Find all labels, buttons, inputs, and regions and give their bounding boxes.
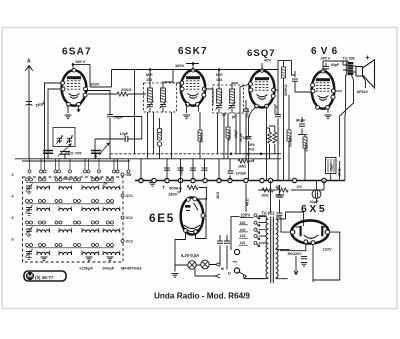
node avc2: [247, 153, 250, 156]
wire trim arrow: [160, 101, 167, 109]
resistor avc load: [273, 132, 277, 143]
capacitor right1: [277, 195, 283, 197]
wire right caps: [279, 185, 281, 218]
svg-text:+150pF: +150pF: [79, 266, 93, 271]
node bus junction: [322, 178, 326, 182]
svg-text:TA 952: TA 952: [262, 211, 276, 216]
svg-text:D: D: [228, 271, 231, 276]
svg-text:125: 125: [240, 234, 246, 238]
wire arrow down: [294, 256, 298, 275]
trimmer capacitor osc2: [66, 135, 73, 143]
wire underline 140: [239, 231, 248, 233]
svg-text:6SK7: 6SK7: [178, 46, 208, 57]
wire tap 110: [259, 242, 267, 244]
wire stub: [98, 159, 100, 170]
svg-text:6SQ7: 6SQ7: [247, 48, 276, 59]
wire 6SA7 right: [85, 91, 111, 159]
wire 6SK7 cath: [186, 104, 188, 113]
trimmer box osc: [53, 128, 75, 147]
wire 6SQ7 down: [266, 107, 268, 181]
ground 6SA7: [65, 115, 72, 119]
resistor 130ohm: [277, 188, 288, 192]
resistor 200K vert: [282, 67, 286, 78]
svg-text:45V: 45V: [264, 58, 271, 63]
wire tr primary top: [323, 61, 348, 70]
wire 6SK7 out: [205, 89, 214, 105]
svg-text:-8V: -8V: [275, 184, 281, 189]
terminal antenna row: [127, 170, 130, 173]
wire primary tap: [259, 229, 267, 231]
svg-text:pF: pF: [232, 115, 236, 119]
svg-text:30Ω: 30Ω: [262, 194, 269, 198]
coil row 1 OM: [26, 178, 29, 181]
wire 6V6 cathode: [327, 109, 329, 113]
node bus junction: [139, 178, 143, 182]
svg-text:100V: 100V: [90, 82, 100, 87]
wire col 283 upper: [283, 61, 285, 68]
svg-text:6: 6: [12, 238, 14, 242]
capacitor couple 6V6: [292, 79, 298, 81]
tube 6E5 indicator: [181, 197, 205, 234]
wire selector left: [231, 217, 240, 251]
wire pot right: [195, 188, 207, 200]
coil row 4 OC3: [26, 244, 29, 247]
wire underline 110: [239, 244, 248, 246]
wire stub: [44, 159, 46, 170]
IF transformer MF154 box: [213, 85, 244, 113]
wire col 291 upper: [291, 61, 293, 76]
wire top rail: [112, 69, 279, 71]
terminal antenna row: [98, 170, 101, 173]
node bus junction: [217, 178, 221, 182]
svg-text:180V: 180V: [175, 63, 185, 68]
node bus junction: [191, 178, 195, 182]
svg-text:M.F.: M.F.: [216, 73, 223, 77]
wire main bus: [135, 180, 345, 182]
svg-text:152: 152: [146, 78, 152, 82]
wire 4K: [245, 184, 247, 212]
svg-text:50μF: 50μF: [114, 115, 124, 120]
node rail 6SQ7: [261, 68, 264, 71]
wire mf154 down: [218, 113, 225, 159]
wire secondary ct: [276, 249, 290, 251]
node bus junction: [152, 178, 156, 182]
wire 100pF: [230, 159, 254, 181]
wire 50uF down: [109, 118, 111, 159]
wire stub: [29, 159, 31, 170]
wire tr sec down1: [344, 75, 347, 180]
IF winding 154a: [217, 89, 222, 103]
IF winding 152a: [148, 88, 153, 102]
svg-text:6SA7: 6SA7: [62, 47, 92, 58]
ground T: [149, 183, 156, 187]
wire cap drop: [166, 159, 168, 180]
wire 6SQ7 plate out: [274, 89, 278, 91]
wire drops: [141, 159, 219, 181]
capacitor 10pF: [125, 136, 128, 142]
tube 6V6 U4: [311, 69, 336, 109]
svg-text:OC3: OC3: [126, 240, 133, 244]
antenna symbol: [25, 65, 33, 71]
variable capacitor gang 2: [91, 151, 101, 154]
wire 5KpF down: [248, 127, 250, 181]
node bus junction: [203, 178, 207, 182]
node bus junction: [228, 178, 232, 182]
capacitor 16uF block: [326, 158, 337, 174]
electrolytic 32uF: [312, 190, 321, 199]
ground 6SK7: [183, 115, 190, 119]
svg-text:140: 140: [240, 228, 246, 232]
terminal OC3: [121, 240, 124, 243]
wire trim arrow: [216, 102, 223, 110]
tap arrow 125: [254, 235, 260, 240]
wire AVC solid right: [236, 153, 281, 155]
capacitor mf154a: [216, 106, 222, 108]
capacitor mf152a: [147, 105, 153, 107]
terminal mains 1: [234, 249, 239, 254]
terminal antenna row: [87, 170, 90, 173]
terminal antenna row: [54, 170, 57, 173]
wire stub: [117, 159, 119, 170]
svg-text:4KΩ: 4KΩ: [216, 192, 220, 199]
wire underline 160: [239, 224, 248, 226]
svg-text:180V: 180V: [168, 191, 178, 196]
wire tuning bus 2: [22, 160, 130, 162]
capacitor mf154b: [229, 106, 235, 108]
wire 3K down: [339, 161, 341, 181]
terminal OC2: [121, 216, 124, 219]
wire mf152 top: [150, 70, 173, 89]
wire 6SA7 cathode: [67, 105, 69, 113]
wire mf152 down3: [171, 112, 173, 159]
wire primary tap: [259, 235, 267, 237]
wire 6SQ7 plate: [261, 63, 263, 71]
wire stub: [128, 159, 130, 170]
terminal antenna row: [43, 170, 46, 173]
node avc3: [260, 153, 263, 156]
svg-text:TU 208: TU 208: [343, 57, 355, 61]
capacitor 6V6 top: [323, 67, 329, 69]
wire seg top: [278, 60, 292, 62]
svg-text:180 V: 180 V: [75, 59, 86, 64]
svg-text:5KΩ20V: 5KΩ20V: [288, 252, 303, 256]
wire 16uF down: [330, 174, 332, 181]
svg-text:MF457KHZ: MF457KHZ: [121, 266, 142, 271]
ground coil row4 b: [86, 257, 93, 261]
svg-text:1KpF: 1KpF: [234, 130, 238, 138]
wire 6X5 left pin: [276, 217, 290, 232]
wire col 278 lower: [277, 104, 279, 180]
wire res1: [267, 128, 270, 159]
coil row 2 OC1: [26, 200, 29, 203]
svg-text:16μF: 16μF: [330, 164, 334, 171]
wire stub: [69, 159, 71, 170]
node 6SK7 plate tee: [192, 62, 195, 65]
node bus junction: [292, 178, 296, 182]
wire 6V6 screen: [335, 90, 343, 92]
wire 6SA7 g left1: [45, 83, 62, 159]
wire screen 20K: [88, 93, 146, 95]
ground cath: [301, 263, 308, 267]
resistor volume pot: [187, 186, 198, 190]
wire 6E5 left down: [175, 233, 186, 272]
wire primary tap: [259, 242, 267, 244]
capacitor decouple: [178, 168, 184, 170]
wire primary top: [259, 217, 269, 219]
wire AVC dashed bus: [110, 153, 236, 155]
svg-text:T: T: [162, 185, 165, 190]
wire pot: [159, 118, 161, 159]
svg-text:OC1: OC1: [126, 194, 133, 198]
capacitor mf152b: [160, 105, 166, 107]
capacitor decouple: [164, 168, 170, 170]
wire 10K: [199, 112, 201, 159]
svg-text:6V6: 6V6: [311, 46, 341, 57]
capacitor decouple: [202, 168, 208, 170]
tap arrow 160: [254, 221, 260, 226]
wire 6SK7 sup: [198, 105, 200, 112]
wire secondary ends: [276, 212, 288, 279]
wire col 295: [292, 71, 312, 93]
svg-text:~: ~: [233, 257, 238, 267]
wire res2: [269, 126, 275, 154]
wire 6SA7 180V: [73, 64, 90, 86]
svg-text:50pF: 50pF: [331, 63, 340, 67]
wire 6X5 right pin down: [313, 232, 340, 280]
svg-text:10KpF: 10KpF: [102, 266, 115, 271]
svg-text:-9V: -9V: [296, 184, 302, 189]
svg-text:110: 110: [240, 241, 246, 245]
resistor 30K vert: [303, 137, 307, 148]
wire 6E5 right up: [196, 198, 207, 239]
svg-text:8KpF: 8KpF: [296, 119, 306, 123]
terminal antenna row: [40, 170, 43, 173]
resistor 500K vert: [287, 130, 291, 141]
node bus junction: [260, 178, 264, 182]
wire bd caps: [220, 235, 227, 270]
node 6SA7 plate tee: [72, 63, 75, 66]
svg-text:B: B: [221, 266, 224, 271]
node avc1: [230, 153, 233, 156]
resistor 10K vert: [198, 130, 202, 141]
power transformer TA952: [271, 217, 274, 284]
wire 6V6 plate top: [322, 61, 324, 72]
node bus junction: [178, 178, 182, 182]
wire stub: [55, 159, 57, 170]
svg-text:(0) 36-77: (0) 36-77: [35, 275, 54, 280]
terminal antenna row: [113, 170, 116, 173]
wire mf152 bottom: [150, 108, 163, 112]
logo box: [24, 271, 66, 281]
wire tuning bus: [15, 158, 281, 160]
svg-text:680pF: 680pF: [63, 177, 74, 181]
wire 200pF: [245, 100, 247, 159]
resistor 30ohm: [262, 188, 273, 192]
terminal OM: [121, 173, 124, 176]
capacitor cath: [301, 257, 307, 259]
capacitor right2: [277, 213, 283, 215]
terminal antenna row: [69, 170, 72, 173]
capacitor 8KpF: [299, 124, 305, 126]
IF winding 154b: [230, 89, 235, 103]
wire col 283 lower: [283, 78, 285, 180]
wire heater arrow2: [195, 269, 220, 278]
svg-text:KΩ: KΩ: [249, 148, 255, 152]
capacitor 50uF: [107, 115, 113, 117]
svg-text:1MΩ: 1MΩ: [238, 165, 246, 169]
capacitor 200pF: [243, 109, 249, 111]
wire tap 140: [259, 229, 267, 231]
wire tap 160: [259, 222, 267, 224]
svg-text:220V: 220V: [241, 213, 251, 218]
resistor 20K: [117, 92, 128, 96]
wire 6SQ7 cathode: [249, 107, 257, 128]
wire 50pF stub: [325, 63, 327, 73]
terminal antenna row: [116, 170, 119, 173]
wire mf152 down1: [147, 112, 149, 159]
node bus junction: [165, 178, 169, 182]
wire 6SK7 grid: [176, 82, 182, 84]
capacitor bd2: [224, 241, 230, 243]
svg-text:Unda Radio - Mod. R64/9: Unda Radio - Mod. R64/9: [154, 292, 250, 301]
wire trim arrow: [147, 101, 154, 109]
wire stub: [113, 159, 115, 170]
capacitor antenna series: [26, 102, 33, 106]
terminal OC1: [121, 194, 124, 197]
wire tap 125: [259, 235, 267, 237]
wire 6SA7 g left2: [48, 89, 63, 159]
wire 6X5 cath left: [280, 244, 306, 251]
wire cap drop: [192, 159, 194, 180]
capacitor decouple: [190, 168, 196, 170]
svg-text:245 V: 245 V: [321, 57, 331, 61]
svg-text:20KΩ: 20KΩ: [121, 87, 132, 92]
wire 6E5 grid: [178, 181, 181, 193]
wire mf154 top: [219, 70, 238, 90]
wire primary bottom: [243, 278, 268, 280]
svg-text:160: 160: [240, 221, 246, 225]
svg-text:A: A: [27, 59, 31, 65]
wire underline 125: [239, 237, 248, 239]
svg-text:100pF: 100pF: [236, 172, 247, 176]
tube 6SK7 U2: [180, 69, 207, 107]
resistor pot: [158, 129, 162, 140]
capacitor 5KpF: [246, 137, 252, 139]
speaker AP622: [356, 67, 363, 77]
IF transformer MF152 box: [144, 83, 177, 112]
node rail-mf154: [218, 68, 221, 71]
wire 8KpF: [301, 117, 303, 135]
wire bias rail: [258, 181, 324, 191]
trimmer capacitor osc: [56, 135, 63, 143]
svg-text:OC2: OC2: [126, 216, 133, 220]
resistor 50K vert: [226, 127, 230, 138]
wire 220V underline: [240, 217, 254, 219]
resistor 6SQ7 load: [268, 132, 272, 143]
terminal mains 2: [234, 268, 239, 273]
capacitor 100pF: [228, 171, 234, 173]
wire mf154 bottom: [219, 109, 232, 113]
svg-text:222V: 222V: [323, 247, 333, 252]
ground coil row4 a: [41, 257, 48, 261]
coil row 3 OC2: [26, 221, 29, 224]
svg-text:OM: OM: [126, 173, 132, 177]
capacitor 200uF col: [275, 115, 281, 117]
svg-text:500: 500: [249, 143, 255, 147]
band switch coil box: [23, 177, 124, 262]
svg-text:32μF: 32μF: [310, 199, 320, 204]
wire tap 220: [259, 214, 267, 216]
tap arrow 140: [254, 228, 260, 233]
wire avc feed mf152: [134, 70, 136, 154]
wire switch: [239, 272, 266, 279]
node bus junction: [268, 178, 272, 182]
IF winding 152b: [161, 88, 166, 102]
wire primary tap: [259, 222, 267, 224]
capacitor bd1: [217, 241, 223, 243]
svg-text:10pF: 10pF: [120, 132, 130, 136]
svg-text:5KpF: 5KpF: [239, 132, 243, 142]
pilot lamp 2: [201, 260, 209, 268]
ground lamps: [172, 274, 179, 278]
wire 6SK7 plate: [186, 64, 199, 71]
svg-text:200KΩ: 200KΩ: [284, 84, 288, 96]
wire spk down: [353, 66, 365, 88]
node bus junction: [244, 178, 248, 182]
svg-text:AP622: AP622: [357, 90, 368, 94]
wire 50K: [227, 113, 229, 159]
svg-text:200μF: 200μF: [273, 103, 277, 114]
wire cap drop: [180, 159, 182, 180]
wire trim arrow: [229, 102, 236, 110]
variable capacitor gang 1: [43, 151, 53, 154]
terminal antenna row: [28, 170, 31, 173]
wire tr sec down2: [340, 75, 354, 157]
wire 6X5 cath down: [312, 245, 314, 283]
tube 6SA7 U1: [61, 69, 88, 107]
svg-text:6: 6: [12, 216, 14, 220]
svg-text:6X5: 6X5: [301, 203, 327, 215]
wire stub: [40, 159, 42, 170]
wire antenna down: [28, 71, 30, 159]
svg-text:6E5: 6E5: [149, 211, 175, 225]
tube 6X5 U5 rectifier: [290, 220, 329, 244]
tube 6SQ7 U3: [248, 69, 275, 108]
ground coil row4 c: [107, 257, 114, 261]
wire stub: [88, 159, 90, 170]
output transformer TU208: [348, 62, 353, 75]
wire col 278 upper: [277, 61, 279, 105]
wire 32uF: [316, 181, 318, 204]
wire oscillator loop: [90, 70, 112, 88]
tap arrow 110: [254, 242, 260, 247]
wire trimmers down: [48, 139, 96, 159]
resistor 1M: [238, 159, 249, 163]
wire 6SA7 arrow: [77, 105, 80, 112]
wire 10pF link: [95, 117, 142, 140]
svg-text:6,3V-0,5A: 6,3V-0,5A: [181, 253, 199, 258]
wire 6SQ7 grid in: [240, 84, 250, 154]
wire cap drop: [204, 159, 206, 180]
terminal antenna row: [84, 170, 87, 173]
svg-text:6: 6: [12, 173, 14, 177]
svg-text:154: 154: [216, 78, 223, 82]
wire lamps arrow: [175, 263, 220, 267]
svg-text:30KpF: 30KpF: [180, 166, 184, 176]
wire mf152 down2: [153, 112, 155, 154]
ground 6V6: [325, 115, 332, 119]
svg-text:6: 6: [12, 195, 14, 199]
